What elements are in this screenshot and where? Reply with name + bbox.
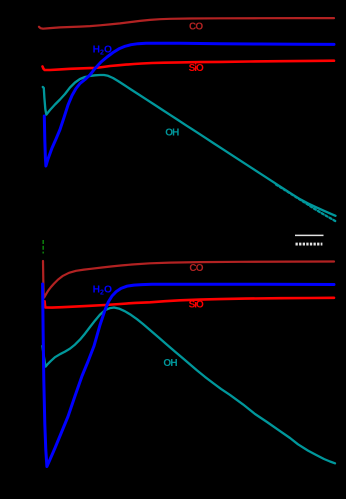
CO curve top panel xyxy=(39,18,334,29)
CO curve bottom panel xyxy=(43,261,334,298)
svg-text:OH: OH xyxy=(165,128,179,139)
SiO curve bottom panel xyxy=(45,298,334,308)
H2O curve bottom panel xyxy=(43,284,334,467)
svg-text:CO: CO xyxy=(189,21,203,32)
svg-text:SiO: SiO xyxy=(189,300,204,311)
OH curve bottom panel xyxy=(42,308,335,464)
green dashed marker line between panels xyxy=(42,240,44,254)
OH curve top panel (solid) xyxy=(43,75,336,216)
legend dotted white line xyxy=(296,243,323,246)
OH curve top panel (dotted branch) xyxy=(276,185,337,222)
H2O curve top panel xyxy=(44,43,334,166)
legend solid white line xyxy=(295,234,324,236)
svg-text:CO: CO xyxy=(189,263,203,274)
SiO curve top panel xyxy=(43,61,335,70)
svg-text:SiO: SiO xyxy=(189,63,204,74)
svg-text:OH: OH xyxy=(163,358,177,369)
